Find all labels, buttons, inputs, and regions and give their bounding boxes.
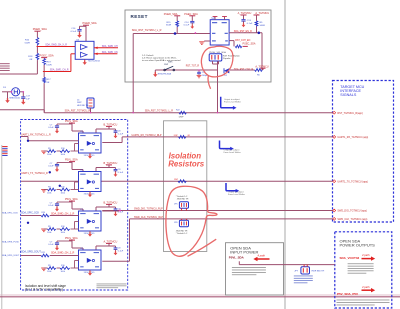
svg-text:100k: 100k [61,154,65,156]
svg-text:100k: 100k [61,232,65,234]
svg-text:SWD_CLK_TGTMCU (app): SWD_CLK_TGTMCU (app) [337,218,367,221]
svg-text:UART1_RX_TGTMCU (app): UART1_RX_TGTMCU (app) [337,136,368,139]
svg-text:A_TGTMCU: A_TGTMCU [104,240,118,243]
svg-text:SDA_SPIS_PCS0: SDA_SPIS_PCS0 [2,241,20,244]
svg-text:SDA_SWD_CH_1_R: SDA_SWD_CH_1_R [51,212,75,215]
svg-text:0R: 0R [47,82,50,84]
svg-text:UART1_RX_TGTMCU_L_R: UART1_RX_TGTMCU_L_R [21,133,51,136]
svg-text:RST_TGTMCU_R(app): RST_TGTMCU_R(app) [337,112,363,115]
svg-text:INPUT POWER: INPUT POWER [230,250,258,255]
svg-text:100k: 100k [47,271,51,273]
svg-text:B_TGTMCU: B_TGTMCU [104,201,118,204]
svg-text:SDA_SWD_CH_2_R: SDA_SWD_CH_2_R [51,251,75,254]
svg-text:P5VL_SDA: P5VL_SDA [229,256,245,260]
svg-text:0.1uF: 0.1uF [71,31,77,33]
svg-text:PGED_SDA: PGED_SDA [83,21,97,25]
svg-text:DNP: DNP [179,117,184,119]
svg-text:0.1uF: 0.1uF [118,211,124,213]
svg-text:100k: 100k [47,192,51,194]
svg-text:UART1_RX_TGTMCU_RLP: UART1_RX_TGTMCU_RLP [132,134,162,137]
svg-text:POWER OUTPUTS: POWER OUTPUTS [340,243,376,248]
svg-text:JW3 IND TH: JW3 IND TH [177,199,189,201]
svg-text:P5VL_SDA: P5VL_SDA [65,198,78,201]
svg-text:B_TGTMCU: B_TGTMCU [104,123,118,126]
svg-text:SDA_SWD_CH: SDA_SWD_CH [102,45,118,48]
svg-text:B_TGTMCU: B_TGTMCU [104,162,118,165]
svg-text:to use when OpenSDA is not pre: to use when OpenSDA is not presented [142,59,181,62]
svg-text:0.1uF: 0.1uF [48,166,54,168]
svg-text:SMBJ12LA: SMBJ12LA [9,96,20,99]
svg-text:From Level Shifter: From Level Shifter [224,151,241,154]
svg-text:UART1_TX_TGTMCU (app): UART1_TX_TGTMCU (app) [337,180,368,183]
svg-text:HDR BD TH: HDR BD TH [77,105,89,107]
svg-text:100k: 100k [61,271,65,273]
svg-text:(for 1.8 to 5V compatibility): (for 1.8 to 5V compatibility) [25,288,63,292]
svg-text:SDA_SPID_SOUT: SDA_SPID_SOUT [2,254,20,257]
svg-text:510R: 510R [25,43,31,45]
svg-text:SDA_VOUT33: SDA_VOUT33 [340,256,360,260]
svg-text:DNP: DNP [164,64,169,66]
svg-text:PGEC_SDA: PGEC_SDA [243,43,256,46]
svg-text:SDA_RST_TGTMCU_L_R: SDA_RST_TGTMCU_L_R [145,110,174,113]
svg-text:From Level Shifter: From Level Shifter [228,193,245,196]
svg-text:SDA_RST_TGTMCU_R: SDA_RST_TGTMCU_R [65,110,91,113]
svg-text:RST_TGT_R: RST_TGT_R [186,65,200,67]
svg-text:Resistors: Resistors [168,159,205,168]
svg-text:SWD_CLK_TGTMCU_RLP: SWD_CLK_TGTMCU_RLP [134,216,163,219]
svg-text:R21: R21 [42,252,45,254]
svg-text:74LVC2G34: 74LVC2G34 [88,60,101,62]
svg-text:100k: 100k [61,192,65,194]
svg-text:SDA_SPIC_SCK: SDA_SPIC_SCK [21,211,39,214]
svg-text:0.1uF: 0.1uF [48,244,54,246]
svg-text:100k: 100k [47,232,51,234]
svg-text:SIGNALS: SIGNALS [340,93,357,97]
svg-text:From Level Shifter: From Level Shifter [224,100,241,103]
svg-text:P5VL_SDA: P5VL_SDA [65,237,78,240]
svg-text:SDA_RST_TGTMCU_L_R: SDA_RST_TGTMCU_L_R [132,29,162,32]
svg-text:ESW-PB-SDA: ESW-PB-SDA [158,73,172,76]
svg-text:100k: 100k [47,154,51,156]
svg-text:510R: 510R [46,65,52,67]
svg-text:0.1uF: 0.1uF [48,127,54,129]
svg-text:0.1uF: 0.1uF [118,250,124,252]
svg-text:SDA_SPID_SOUT: SDA_SPID_SOUT [21,250,41,253]
svg-text:P5VL_SDA: P5VL_SDA [65,159,78,162]
svg-text:0.1uF: 0.1uF [247,23,253,25]
svg-text:4 path: 4 path [362,285,370,289]
svg-text:0.1uF: 0.1uF [48,205,54,207]
svg-text:A_TGTMCU: A_TGTMCU [255,12,269,15]
svg-text:4 path: 4 path [258,254,266,258]
svg-text:SWD_DIO_TGTMCU (app): SWD_DIO_TGTMCU (app) [337,210,367,213]
svg-text:* Default 1-2: * Default 1-2 [176,232,188,235]
svg-text:Popular: Popular [223,57,231,60]
svg-text:1uF: 1uF [26,99,30,101]
svg-text:R20: R20 [42,212,45,214]
svg-text:SDA_RST_EN_R: SDA_RST_EN_R [234,30,252,33]
svg-text:SDA_SWD_CN: SDA_SWD_CN [102,51,118,54]
svg-text:4 path: 4 path [362,253,370,257]
svg-text:SDA_SPIC_SCK: SDA_SPIC_SCK [2,211,18,214]
svg-text:0.1uF: 0.1uF [118,172,124,174]
svg-text:0R: 0R [30,59,33,61]
svg-text:P5VL_SDA: P5VL_SDA [65,120,78,123]
svg-text:HDR IND TH: HDR IND TH [312,271,325,273]
svg-text:0.1uF: 0.1uF [184,25,190,27]
svg-text:0.1uF: 0.1uF [118,133,124,135]
svg-text:RESET: RESET [131,14,148,19]
svg-text:P5V_SDA_P5V: P5V_SDA_P5V [337,292,358,296]
svg-text:PGED_SDA: PGED_SDA [33,27,47,31]
svg-text:SDA_SWD_CH_X_R: SDA_SWD_CH_X_R [45,44,67,47]
svg-text:510R: 510R [166,25,172,27]
svg-text:560R: 560R [260,25,266,27]
svg-text:A_TGTMCU: A_TGTMCU [238,12,252,15]
svg-text:SDA_SWD_CH_R: SDA_SWD_CH_R [50,69,69,72]
svg-text:UART1_TX_TGTMCU_R: UART1_TX_TGTMCU_R [21,172,48,175]
svg-text:SWD_DIO_TGTMCU_RLP: SWD_DIO_TGTMCU_RLP [134,208,163,211]
